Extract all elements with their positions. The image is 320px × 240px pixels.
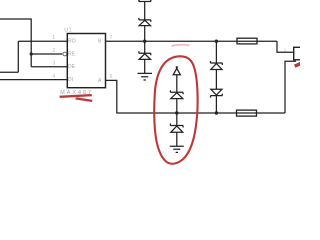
fuse F1 — [237, 38, 257, 44]
red strike line 2 — [76, 98, 93, 101]
svg-text:7: 7 — [110, 35, 113, 41]
wire RO from left edge — [0, 41, 67, 72]
red pen overlap stroke above ellipse — [172, 45, 190, 46]
svg-text:RO: RO — [68, 39, 76, 45]
wire zener pair column — [215, 41, 217, 113]
svg-text:RE: RE — [68, 52, 76, 58]
wire net RE/DE from left edge — [0, 19, 31, 67]
wire A pin to bottom rail — [106, 80, 286, 113]
power arrow — [173, 66, 180, 75]
red strike line 1 — [60, 95, 92, 97]
zener D6 — [139, 18, 151, 26]
svg-text:1: 1 — [52, 35, 55, 41]
wire DI from left edge — [0, 79, 67, 81]
wire B rail — [106, 40, 278, 42]
svg-text:DE: DE — [68, 64, 76, 70]
ground under diode chain — [170, 146, 184, 152]
svg-text:1: 1 — [284, 47, 287, 52]
svg-text:3: 3 — [52, 61, 55, 67]
zener D3 — [210, 61, 222, 70]
wire top diode column — [144, 1, 146, 73]
junction node dots — [30, 40, 218, 115]
fuse F2 — [237, 110, 257, 116]
svg-text:2: 2 — [52, 48, 55, 54]
wire RE branch — [31, 53, 62, 55]
zener D7 — [139, 51, 151, 59]
svg-text:B: B — [98, 39, 102, 45]
wire middle diode chain — [176, 75, 178, 146]
red annotation ellipse — [154, 56, 197, 163]
svg-text:U1: U1 — [64, 27, 71, 33]
zener D1 — [170, 90, 183, 98]
ground under zener D7 — [138, 73, 153, 80]
svg-text:DI: DI — [68, 77, 73, 83]
wire right to connector top — [277, 41, 301, 52]
svg-text:6: 6 — [110, 74, 113, 80]
wire DE pin 3 — [31, 66, 67, 68]
zener D2 — [170, 124, 183, 133]
red mark right edge — [295, 63, 301, 66]
svg-text:A: A — [98, 78, 102, 84]
wire bottom right up to connector — [285, 61, 296, 113]
zener D4 — [210, 89, 222, 97]
svg-text:4: 4 — [52, 73, 55, 79]
connector J1 at right edge — [294, 47, 302, 60]
zener D5 top cut off — [139, 0, 151, 1]
op-amp U1 MAX487 box — [67, 34, 105, 88]
pin RE inversion bubble — [63, 52, 67, 56]
